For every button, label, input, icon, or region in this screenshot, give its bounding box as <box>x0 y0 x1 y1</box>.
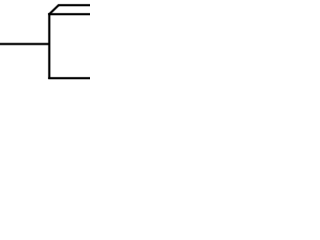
component U1 (3D block, clipped at right image edge) <box>48 5 91 79</box>
front face top edge <box>48 13 91 16</box>
front face left edge <box>48 13 51 79</box>
top face back edge <box>58 4 91 7</box>
wire <box>0 42 50 45</box>
top face diagonal edge <box>49 5 59 15</box>
front face bottom edge <box>48 77 91 80</box>
